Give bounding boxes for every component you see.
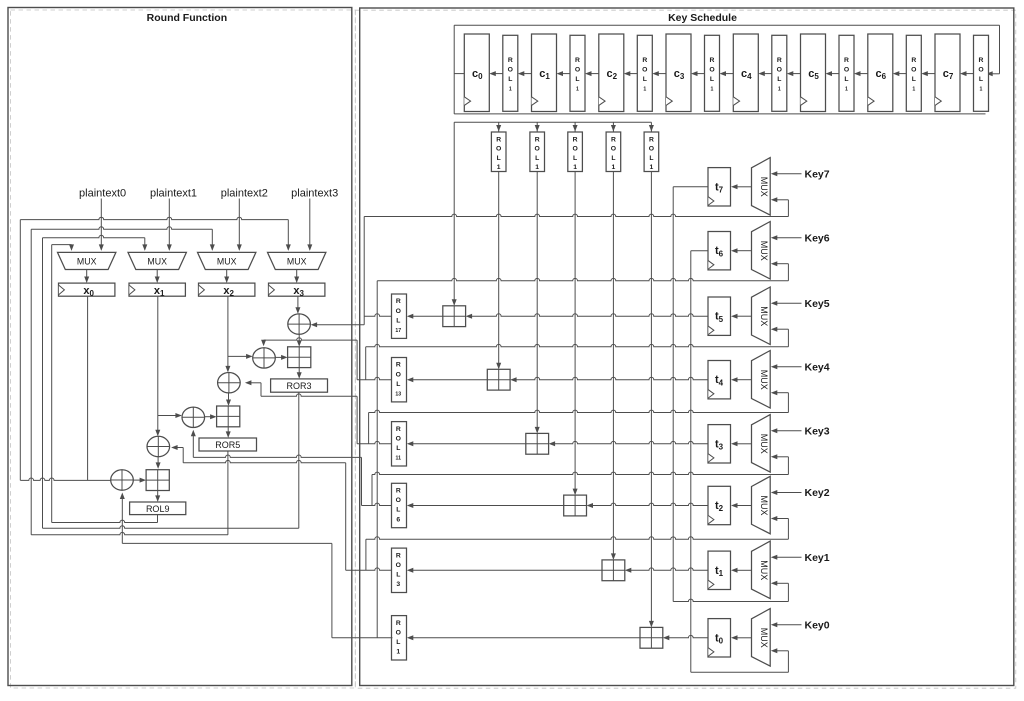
wire mux M1 output into t1 [731, 568, 752, 573]
svg-text:L: L [396, 507, 400, 514]
svg-text:L: L [710, 76, 714, 83]
Key Schedule enclosure [360, 8, 1014, 686]
rotate block ROL3 [392, 548, 407, 592]
wire Key0 into mux [771, 622, 802, 627]
register t5 [708, 297, 731, 335]
wire c7 output into ROL1#6 [921, 71, 935, 76]
wire mux M7 output into t7 [731, 184, 752, 189]
wire feedback nest vertical C [42, 238, 44, 529]
rotate block ROR3 [271, 379, 328, 392]
mux M5 [752, 287, 771, 345]
svg-text:L: L [573, 155, 577, 162]
rotate block ROL1 (top row #1) [570, 35, 585, 111]
svg-text:L: L [979, 76, 983, 83]
wire adder X5 output into ROL3 [407, 568, 602, 573]
svg-text:1: 1 [711, 87, 714, 93]
wire c1 output into ROL1#0 [518, 71, 532, 76]
svg-text:1: 1 [573, 164, 577, 171]
wire ROL1#6 output into c6 [893, 71, 907, 76]
wire mux M1 feedback input [771, 581, 789, 602]
svg-text:Key3: Key3 [805, 425, 830, 437]
dashed frame right panel [355, 10, 1016, 688]
svg-text:O: O [396, 308, 401, 315]
plaintext0 label [79, 187, 126, 199]
wire mux M7 feedback input [771, 197, 789, 216]
adder X5 [602, 560, 625, 581]
svg-text:L: L [396, 317, 400, 324]
svg-text:MUX: MUX [147, 257, 167, 267]
svg-text:MUX: MUX [77, 257, 97, 267]
plaintext3 label [291, 187, 338, 199]
svg-text:O: O [642, 67, 647, 74]
mux M3 [752, 415, 771, 473]
wire ROR3 output to mux1 feedback [43, 526, 299, 528]
svg-text:O: O [496, 146, 501, 153]
wire Key1 into mux [771, 555, 802, 560]
svg-text:ROR3: ROR3 [286, 381, 311, 391]
wire ROL1 output row [332, 637, 393, 639]
wire t0 output into adder X6 [663, 635, 708, 640]
wire t5 output into adder X1 [466, 314, 708, 319]
svg-text:R: R [911, 57, 916, 64]
svg-text:MUX: MUX [217, 257, 237, 267]
svg-text:Key2: Key2 [805, 487, 830, 499]
wire state feedback to mux3 [20, 217, 291, 251]
rotate block ROL1 (second row #2) [568, 132, 583, 172]
wire round key 4 into XOR4 [191, 430, 362, 458]
svg-text:L: L [396, 639, 400, 646]
wire adder A1 output into ROR3 [297, 368, 302, 379]
adder X2 [487, 369, 510, 390]
svg-text:6: 6 [396, 516, 400, 523]
wire rotated constant into adder X5 [611, 172, 616, 560]
wire x2 branch to XOR2 [228, 354, 253, 359]
wire lane bus t5 to ROL13 row [365, 347, 367, 380]
xor gate XOR2 [253, 348, 276, 368]
dashed frame left panel [11, 10, 356, 688]
wire mux M5 feedback input [771, 327, 789, 347]
svg-text:3: 3 [396, 581, 400, 588]
rotate block ROL1 (second row #4) [644, 132, 659, 172]
wire rotated constant into adder X1 [452, 122, 457, 305]
wire ROL17 output row [364, 314, 391, 316]
svg-text:ROL9: ROL9 [146, 504, 170, 514]
wire lane bus t3 to ROL6 row [371, 475, 373, 506]
plaintext1 label [150, 187, 197, 199]
xor gate XOR6 [111, 470, 134, 490]
svg-text:plaintext0: plaintext0 [79, 187, 126, 199]
svg-text:Key5: Key5 [805, 298, 830, 310]
Key Schedule title [668, 12, 737, 24]
svg-text:O: O [649, 146, 654, 153]
svg-text:R: R [575, 57, 580, 64]
svg-text:O: O [396, 562, 401, 569]
wire ROR3 output column [298, 392, 300, 528]
wire round key 3 into XOR3 [245, 380, 357, 396]
svg-text:R: R [844, 57, 849, 64]
wire state feedback to mux1 [43, 235, 148, 251]
wire adder X2 output into ROL13 [407, 377, 488, 382]
wire c6 output into ROL1#5 [854, 71, 868, 76]
wire lane bus t2 to ROL3 row [365, 539, 367, 570]
svg-text:1: 1 [497, 164, 501, 171]
svg-text:plaintext2: plaintext2 [221, 187, 268, 199]
mux M2 [752, 476, 771, 534]
wire plaintext3 into mux [307, 199, 312, 251]
register x2 [199, 283, 255, 298]
wire t6 feedback bus [377, 278, 788, 280]
wire round key 2 into XOR2 [261, 338, 357, 347]
svg-text:L: L [396, 572, 400, 579]
wire mux M3 output into t3 [731, 441, 752, 446]
svg-text:O: O [396, 371, 401, 378]
adder X4 [564, 495, 587, 516]
wire feed into ROL1 col 4 [649, 125, 654, 132]
Round Function enclosure [8, 8, 352, 686]
wire t2 feedback bus [366, 537, 789, 539]
svg-text:L: L [396, 381, 400, 388]
Key1 input label [805, 552, 830, 564]
Key0 input label [805, 619, 830, 631]
wire t5 feedback bus [366, 344, 789, 346]
svg-text:MUX: MUX [759, 177, 769, 197]
svg-text:O: O [709, 67, 714, 74]
rotate block ROL1 [392, 616, 407, 660]
svg-text:O: O [777, 67, 782, 74]
svg-text:Key0: Key0 [805, 619, 830, 631]
svg-text:17: 17 [395, 328, 401, 334]
wire mux M6 feedback input [771, 261, 789, 281]
wire adder X4 output into ROL6 [407, 503, 564, 508]
rotate block ROR5 [199, 438, 257, 451]
rotate block ROL6 [392, 483, 407, 527]
wire t7 output column [673, 187, 708, 602]
wire round-constant distribution line [454, 122, 651, 131]
svg-text:1: 1 [576, 87, 579, 93]
rotate block ROL1 (top row #0) [503, 35, 518, 111]
svg-text:Key1: Key1 [805, 552, 830, 564]
wire mux M5 output into t5 [731, 314, 752, 319]
wire round key 2 riser [356, 340, 358, 380]
wire round key 3 riser [356, 396, 358, 444]
svg-text:L: L [535, 155, 539, 162]
svg-text:MUX: MUX [759, 306, 769, 326]
wire mux into register x1 [155, 270, 160, 284]
register c2 [599, 34, 624, 112]
svg-text:R: R [649, 137, 654, 144]
wire adder A3 output into ROL9 [155, 491, 160, 502]
register c0 [464, 34, 489, 112]
wire feed into ROL1 col 3 [611, 122, 616, 131]
wire mux M2 feedback input [771, 516, 789, 539]
svg-text:1: 1 [845, 87, 848, 93]
register c7 [935, 34, 960, 112]
wire mux into register x3 [294, 270, 299, 284]
wire mux M3 feedback input [771, 454, 789, 474]
wire c0 output to top-row feedback loop [454, 25, 999, 114]
rotate block ROL17 [392, 294, 407, 338]
svg-text:1: 1 [643, 87, 646, 93]
svg-text:MUX: MUX [759, 434, 769, 454]
svg-text:O: O [575, 67, 580, 74]
wire plaintext2 into mux [237, 199, 242, 251]
rotate block ROL13 [392, 358, 407, 402]
wire feedback nest vertical B [30, 229, 32, 535]
svg-text:1: 1 [396, 649, 400, 656]
svg-text:1: 1 [912, 87, 915, 93]
svg-text:R: R [642, 57, 647, 64]
wire adder X6 output into ROL1 [407, 635, 640, 640]
adder A3 [146, 470, 169, 491]
register c1 [532, 34, 557, 112]
wire mux into register x0 [84, 270, 89, 284]
register t1 [708, 551, 731, 589]
svg-text:Key6: Key6 [805, 232, 830, 244]
wire Key2 into mux [771, 490, 802, 495]
wire t4 output into adder X2 [510, 377, 708, 382]
wire XOR5 output into adder A3 [156, 457, 161, 469]
wire x0 output column [87, 296, 89, 480]
wire ROL1#3 output into c3 [691, 71, 705, 76]
svg-text:R: R [535, 137, 540, 144]
wire t1 feedback bus [673, 599, 788, 601]
rotate block ROL1 (top row #5) [839, 35, 854, 111]
wire ROR5 output column [227, 451, 229, 535]
wire round key 1 into XOR1 [311, 322, 365, 327]
svg-text:L: L [611, 155, 615, 162]
wire feed into ROL1 col 2 [573, 122, 578, 131]
adder X3 [526, 433, 549, 454]
mux M7 [752, 158, 771, 216]
xor gate XOR4 [182, 407, 205, 427]
wire t6 output column [691, 251, 708, 673]
svg-text:1: 1 [778, 87, 781, 93]
plaintext2 label [221, 187, 268, 199]
svg-text:R: R [611, 137, 616, 144]
rotate block ROL1 (top row #6) [906, 35, 921, 111]
wire c5 output into ROL1#4 [787, 71, 801, 76]
Key3 input label [805, 425, 830, 437]
register c4 [733, 34, 758, 112]
mux state1 [128, 252, 186, 269]
wire Key4 into mux [771, 364, 802, 369]
wire mux M4 feedback input [771, 390, 789, 412]
wire ROL13 output row [357, 377, 391, 379]
svg-text:O: O [611, 146, 616, 153]
wire ROL1#5 output into c5 [826, 71, 840, 76]
wire ROR5 output to mux2 feedback [31, 532, 228, 534]
mux M4 [752, 351, 771, 409]
wire mux M4 output into t4 [731, 377, 752, 382]
wire ROL1#4 output into c4 [758, 71, 772, 76]
svg-text:MUX: MUX [759, 370, 769, 390]
Key6 input label [805, 232, 830, 244]
rotate block ROL9 [130, 502, 186, 515]
svg-text:O: O [508, 67, 513, 74]
register t4 [708, 361, 731, 399]
rotate block ROL1 (top row #4) [772, 35, 787, 111]
wire ROL1#1 output into c1 [557, 71, 571, 76]
register t7 [708, 168, 731, 206]
svg-text:ROR5: ROR5 [215, 440, 240, 450]
adder X1 [443, 306, 466, 327]
register t2 [708, 486, 731, 524]
rotate block ROL1 (second row #1) [530, 132, 545, 172]
wire x1 branch to XOR4 [158, 413, 182, 418]
svg-text:MUX: MUX [759, 560, 769, 580]
wire mux M6 output into t6 [731, 248, 752, 253]
Key2 input label [805, 487, 830, 499]
register c5 [801, 34, 826, 112]
svg-text:1: 1 [650, 164, 654, 171]
svg-text:Round Function: Round Function [147, 12, 227, 24]
wire mux M2 output into t2 [731, 503, 752, 508]
wire plaintext1 into mux [167, 199, 172, 251]
register x3 [269, 283, 325, 298]
wire round key 6 into XOR6 [120, 493, 332, 544]
svg-text:O: O [396, 497, 401, 504]
mux M6 [752, 222, 771, 280]
svg-text:1: 1 [535, 164, 539, 171]
svg-text:MUX: MUX [759, 241, 769, 261]
wire t0 feedback bus [691, 671, 789, 673]
svg-text:R: R [396, 488, 401, 495]
svg-text:1: 1 [509, 87, 512, 93]
mux M1 [752, 541, 771, 599]
wire Key6 into mux [771, 235, 802, 240]
wire rotated constant into adder X6 [649, 172, 654, 628]
wire lane bus t4 to ROL11 row [368, 413, 370, 444]
wire feed into ROL1 col 0 [496, 122, 501, 131]
svg-text:O: O [911, 67, 916, 74]
Key7 input label [805, 168, 830, 180]
svg-text:O: O [978, 67, 983, 74]
svg-text:plaintext3: plaintext3 [291, 187, 338, 199]
wire rotated constant into adder X2 [496, 172, 501, 370]
wire c2 output into ROL1#1 [585, 71, 599, 76]
svg-text:L: L [844, 76, 848, 83]
wire ROL1#2 output into c2 [624, 71, 638, 76]
Key4 input label [805, 361, 830, 373]
register x1 [129, 283, 185, 298]
svg-text:O: O [572, 146, 577, 153]
register t6 [708, 232, 731, 270]
wire ROL9 output column [157, 515, 159, 523]
svg-text:O: O [396, 629, 401, 636]
svg-text:MUX: MUX [759, 628, 769, 648]
svg-text:R: R [396, 362, 401, 369]
svg-text:R: R [396, 620, 401, 627]
svg-text:L: L [777, 76, 781, 83]
svg-text:R: R [979, 57, 984, 64]
wire adder X3 output into ROL11 [407, 441, 526, 446]
wire XOR4 output into adder A2 [205, 414, 217, 419]
wire round key 5 riser [345, 463, 347, 571]
rotate block ROL1 (top row #3) [705, 35, 720, 111]
wire mux M0 output into t0 [731, 635, 752, 640]
svg-text:R: R [496, 137, 501, 144]
svg-text:L: L [497, 155, 501, 162]
wire mux into register x2 [224, 270, 229, 284]
wire x0 output to XOR6 and mux3 feedback [20, 478, 117, 483]
mux state0 [58, 252, 116, 269]
adder A2 [217, 406, 240, 427]
wire state feedback to mux2 [31, 227, 215, 251]
wire t3 feedback bus [372, 472, 788, 474]
Key5 input label [805, 298, 830, 310]
rotate block ROL11 [392, 422, 407, 466]
wire c4 output into ROL1#3 [720, 71, 734, 76]
wire adder A2 output into ROR5 [226, 427, 231, 438]
wire rotated constant into adder X3 [535, 172, 540, 434]
wire t2 output into adder X4 [587, 503, 709, 508]
rotate block ROL1 (second row #0) [491, 132, 506, 172]
svg-text:L: L [643, 76, 647, 83]
wire XOR6 output into adder A3 [133, 478, 146, 483]
register c3 [666, 34, 691, 112]
mux state2 [198, 252, 256, 269]
rotate block ROL1 (top row #7) [974, 35, 989, 111]
rotate block ROL1 (second row #3) [606, 132, 621, 172]
wire lane bus t6 to ROL1 row [376, 281, 378, 638]
svg-text:R: R [508, 57, 513, 64]
wire mux M0 feedback input [771, 648, 789, 672]
wire x2 output column [225, 296, 230, 372]
wire XOR3 output into adder A2 [226, 393, 231, 406]
svg-text:O: O [844, 67, 849, 74]
svg-text:L: L [396, 445, 400, 452]
svg-text:1: 1 [980, 87, 983, 93]
wire t4 feedback bus [369, 410, 789, 412]
wire rotated constant into adder X4 [573, 172, 578, 496]
svg-text:R: R [396, 552, 401, 559]
register x0 [59, 283, 115, 298]
xor gate XOR1 [288, 314, 311, 334]
wire feedback nest vertical D [51, 245, 53, 523]
mux M0 [752, 609, 771, 667]
wire XOR1 output into adder A1 [297, 334, 302, 347]
adder X6 [640, 627, 663, 648]
mux state3 [268, 252, 326, 269]
register c6 [868, 34, 893, 112]
register t3 [708, 425, 731, 463]
wire x1 output column [155, 296, 160, 436]
svg-text:O: O [535, 146, 540, 153]
rotate block ROL1 (top row #2) [637, 35, 652, 111]
adder A1 [288, 347, 311, 368]
svg-text:Key4: Key4 [805, 361, 830, 373]
wire adder X1 output into ROL17 [407, 314, 443, 319]
wire ROL1#0 output into c0 [489, 71, 503, 76]
wire t1 output into adder X5 [625, 568, 708, 573]
wire x3 output column [295, 296, 300, 314]
svg-text:1: 1 [612, 164, 616, 171]
svg-text:plaintext1: plaintext1 [150, 187, 197, 199]
wire feed into ROL1 col 1 [535, 122, 540, 131]
svg-text:11: 11 [396, 456, 402, 462]
svg-text:L: L [649, 155, 653, 162]
xor gate XOR3 [218, 373, 241, 393]
wire Key3 into mux [771, 428, 802, 433]
wire lane bus t7 to ROL17 row [363, 217, 365, 325]
wire t7 feedback bus [364, 214, 788, 216]
svg-text:Key7: Key7 [805, 168, 830, 180]
wire ROL9 output to mux0 feedback [52, 520, 158, 522]
svg-text:R: R [777, 57, 782, 64]
svg-text:R: R [573, 137, 578, 144]
svg-text:L: L [508, 76, 512, 83]
svg-text:R: R [396, 298, 401, 305]
